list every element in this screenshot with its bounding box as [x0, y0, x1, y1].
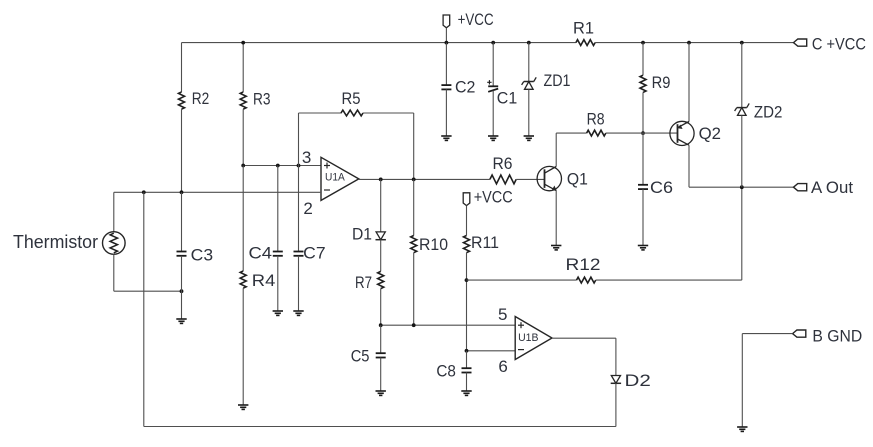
- wire R8 to C6: [642, 133, 644, 185]
- svg-text:C5: C5: [351, 346, 370, 365]
- wire ZD2 to A Out net: [741, 115, 743, 187]
- wire R4 to ground: [242, 288, 244, 405]
- svg-text:R5: R5: [342, 89, 361, 108]
- wire R11 to pin6 net: [466, 253, 468, 351]
- zener diode ZD1: [522, 71, 571, 90]
- svg-text:C8: C8: [436, 361, 456, 380]
- svg-text:+VCC: +VCC: [474, 188, 513, 207]
- junction rail-Q2 emitter: [687, 41, 691, 45]
- ground C4: [273, 310, 283, 312]
- wire Q2 collector drop: [688, 145, 690, 187]
- junction pin6-C8: [465, 349, 469, 353]
- wire R5 top right: [363, 112, 414, 114]
- junction pin3-R3: [241, 164, 245, 168]
- capacitor C6: [638, 178, 673, 197]
- junction rail-C2: [445, 41, 449, 45]
- thermistor RT1: [13, 232, 125, 255]
- wire left feedback vertical: [143, 192, 145, 426]
- svg-text:R12: R12: [566, 255, 601, 274]
- wire flag to R11: [466, 206, 468, 236]
- resistor R8: [587, 110, 606, 136]
- svg-text:U1A: U1A: [325, 172, 345, 184]
- power flag +VCC top: [443, 10, 494, 29]
- ground C8: [461, 390, 471, 392]
- wire out to D1: [380, 179, 382, 232]
- svg-text:+VCC: +VCC: [458, 10, 494, 29]
- transistor Q2: [670, 121, 721, 145]
- zener diode ZD2: [735, 102, 783, 121]
- resistor R2: [179, 89, 210, 109]
- wire pin3 to C7: [298, 166, 300, 252]
- ground R4: [238, 404, 248, 406]
- junction pin2-left vertical: [142, 190, 146, 194]
- junction AOut-ZD2: [740, 185, 744, 189]
- svg-text:C6: C6: [650, 178, 673, 197]
- wire pin6 to C8: [466, 351, 468, 368]
- svg-text:R7: R7: [355, 273, 372, 292]
- ground C2: [441, 135, 451, 137]
- junction pin5-R10: [412, 323, 416, 327]
- wire Q1 collector riser: [555, 133, 557, 166]
- wire U1B output riser: [615, 338, 617, 375]
- diode D1: [352, 225, 386, 244]
- wire D1 to R7: [380, 240, 382, 272]
- wire rail to R2: [181, 43, 183, 92]
- junction R8-R9: [641, 131, 645, 135]
- capacitor C1: [487, 80, 517, 107]
- capacitor C2: [441, 78, 475, 97]
- wire thermistor bottom: [113, 254, 115, 291]
- svg-text:R2: R2: [192, 89, 210, 108]
- wire thermistor top: [113, 192, 115, 231]
- svg-text:5: 5: [498, 305, 507, 324]
- svg-text:R8: R8: [587, 110, 605, 129]
- wire pin5 to C5: [380, 325, 382, 353]
- svg-text:C7: C7: [303, 244, 325, 263]
- resistor R5: [341, 89, 363, 116]
- resistor R3: [240, 90, 270, 110]
- svg-text:A Out: A Out: [811, 178, 853, 197]
- svg-text:C2: C2: [455, 78, 475, 97]
- junction out-D1: [379, 178, 383, 182]
- svg-text:Thermistor: Thermistor: [13, 232, 98, 252]
- wire C4 to ground: [277, 256, 279, 311]
- svg-text:R6: R6: [493, 154, 513, 173]
- wire pin6 net: [467, 350, 516, 352]
- ground B GND: [737, 426, 747, 428]
- wire C5 to ground: [380, 358, 382, 392]
- wire C8 to ground: [466, 373, 468, 392]
- wire R5 left leg: [298, 113, 300, 166]
- wire R5 right leg: [413, 113, 415, 179]
- wire C7 to ground: [298, 256, 300, 311]
- wire Q1 emitter to ground: [555, 191, 557, 246]
- wire R8 right: [606, 132, 678, 134]
- wire R5 top left: [299, 112, 342, 114]
- ground ZD1: [524, 135, 534, 137]
- wire U1A output net: [359, 178, 490, 180]
- terminal C +VCC: [794, 35, 866, 54]
- resistor R12: [566, 255, 601, 283]
- ground C5: [376, 390, 386, 392]
- wire pin5 net: [381, 324, 516, 326]
- wire rail to ZD2: [741, 43, 743, 108]
- svg-text:B GND: B GND: [812, 327, 862, 346]
- capacitor C4: [249, 244, 283, 263]
- ground C7: [293, 310, 303, 312]
- wire pin2 to C3: [181, 192, 183, 251]
- svg-text:R9: R9: [652, 73, 671, 92]
- wire pin3 to C4: [277, 166, 279, 252]
- junction pin3-R5: [297, 164, 301, 168]
- op-amp U1A: [321, 157, 359, 200]
- svg-text:C +VCC: C +VCC: [812, 35, 866, 54]
- wire R10 to pin5 net: [413, 253, 415, 326]
- wire ZD1 to ground: [528, 89, 530, 136]
- diode D2: [611, 371, 651, 390]
- wire B GND drop: [741, 334, 743, 427]
- junction rail-C1: [491, 41, 495, 45]
- resistor R4: [240, 271, 275, 290]
- svg-text:U1B: U1B: [518, 332, 538, 344]
- svg-text:ZD2: ZD2: [754, 102, 783, 121]
- capacitor C3: [177, 245, 214, 264]
- wire out to R10: [413, 179, 415, 235]
- wire rail to R9: [642, 43, 644, 76]
- junction pin5-R7-C5: [379, 323, 383, 327]
- svg-text:C3: C3: [191, 245, 213, 264]
- transistor Q1: [537, 166, 588, 191]
- wire thermistor bottom horizontal: [114, 290, 182, 292]
- wire bottom rail: [144, 426, 616, 428]
- junction pin3-C4: [276, 164, 280, 168]
- wire A Out net: [689, 186, 794, 188]
- terminal B GND: [793, 327, 863, 346]
- wire top rail right segment: [595, 42, 793, 44]
- wire C6 to ground: [642, 189, 644, 245]
- capacitor C7: [294, 244, 326, 263]
- ground C1: [488, 135, 498, 137]
- op-amp U1B: [515, 317, 552, 360]
- wire R2 to pin2 net: [181, 109, 183, 192]
- ground Q1 emitter: [551, 245, 561, 247]
- wire B GND horizontal: [742, 333, 792, 335]
- svg-text:Q2: Q2: [699, 124, 721, 143]
- svg-text:3: 3: [302, 148, 311, 167]
- wire U1B output: [552, 337, 616, 339]
- wire R7 to pin5 net: [380, 289, 382, 326]
- wire +VCC flag to rail: [445, 28, 447, 43]
- wire R12 right: [596, 279, 742, 281]
- resistor R9: [640, 73, 670, 92]
- ground C6: [638, 245, 648, 247]
- junction rail-R9: [641, 41, 645, 45]
- svg-text:R4: R4: [252, 271, 275, 290]
- terminal A Out: [794, 178, 854, 197]
- resistor R11: [464, 233, 500, 253]
- ground C3: [176, 318, 186, 320]
- capacitor C5: [351, 346, 386, 365]
- svg-text:D1: D1: [352, 225, 372, 244]
- wire R9 to R8 net: [642, 92, 644, 133]
- wire rail to R3: [242, 43, 244, 92]
- wire C3 to ground: [181, 256, 183, 319]
- wire rail to C1: [492, 43, 494, 87]
- wire R3 to pin3 net: [242, 109, 244, 165]
- power flag +VCC mid: [463, 188, 513, 207]
- wire rail to ZD1: [528, 43, 530, 82]
- resistor R7: [355, 271, 384, 292]
- wire C2 to ground: [445, 89, 447, 136]
- svg-text:C4: C4: [249, 244, 273, 263]
- wire top +VCC rail left segment: [182, 42, 576, 44]
- junction rail-R3: [241, 41, 245, 45]
- svg-text:6: 6: [498, 357, 507, 376]
- wire R12 left: [467, 279, 577, 281]
- svg-text:R1: R1: [573, 19, 594, 38]
- svg-text:D2: D2: [625, 371, 651, 390]
- junction pin2-R2: [180, 190, 184, 194]
- wire R12 riser to A Out net: [741, 187, 743, 280]
- wire C1 to ground: [492, 91, 494, 136]
- junction rail-ZD2: [740, 41, 744, 45]
- wire rail to C2: [445, 43, 447, 86]
- junction out-R10: [412, 178, 416, 182]
- resistor R1: [573, 19, 595, 46]
- svg-text:R10: R10: [419, 235, 448, 254]
- wire D2 to bottom rail: [615, 383, 617, 426]
- svg-text:R3: R3: [253, 90, 271, 109]
- resistor R10: [411, 235, 448, 254]
- capacitor C8: [436, 361, 471, 380]
- resistor R6: [490, 154, 516, 184]
- wire R6 to Q1 base: [516, 178, 544, 180]
- junction rail-ZD1: [527, 41, 531, 45]
- wire pin3 to R4: [242, 166, 244, 272]
- junction R11-R12: [465, 278, 469, 282]
- svg-text:C1: C1: [497, 88, 517, 107]
- wire pin2 net: [114, 191, 321, 193]
- svg-text:Q1: Q1: [567, 170, 588, 189]
- svg-text:ZD1: ZD1: [544, 71, 571, 90]
- wire pin3 net: [243, 165, 321, 167]
- wire R8 left: [556, 132, 586, 134]
- wire Q2 emitter riser: [688, 43, 690, 122]
- junction thermistor-C3 net: [180, 289, 184, 293]
- svg-text:2: 2: [303, 199, 312, 218]
- svg-text:R11: R11: [471, 233, 499, 252]
